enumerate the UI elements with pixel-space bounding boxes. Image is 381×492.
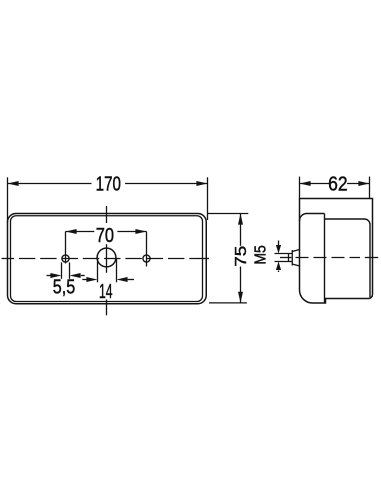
dimension 170 arrowheads	[8, 181, 19, 186]
dimension 5,5 extension lines	[62, 262, 70, 278]
dimension 62 extension line right	[369, 177, 371, 198]
side view lens split vertical line	[324, 214, 326, 304]
center hole (dia 14)	[97, 248, 116, 267]
lamp front view outer outline	[8, 214, 207, 304]
svg-text:62: 62	[328, 173, 348, 195]
dimension 5,5 arrows (pointing inward)	[47, 275, 52, 277]
dimension 14 arrows (pointing inward)	[82, 279, 86, 281]
dimension 170 extension line left	[7, 177, 9, 222]
lamp front view inner outline (lens edge)	[11, 216, 203, 302]
dimension 170 line	[8, 183, 208, 185]
svg-text:M5: M5	[253, 245, 270, 265]
dimension 14 extension lines	[98, 258, 117, 282]
vertical center line of front view	[106, 206, 108, 315]
dimension 70 line with corner drops	[66, 232, 147, 267]
svg-text:75: 75	[233, 246, 250, 267]
svg-text:14: 14	[99, 281, 113, 303]
M5 leader arrows	[278, 241, 280, 246]
svg-text:70: 70	[96, 225, 114, 247]
M5 screw boss (trapezoid)	[292, 250, 299, 267]
horizontal center line through front view	[2, 258, 210, 260]
side view outer outline	[300, 199, 373, 304]
M5 threaded stud	[275, 254, 293, 262]
svg-text:5,5: 5,5	[53, 277, 76, 299]
dimension 62 arrowheads	[300, 181, 311, 186]
dimension 62 line	[300, 183, 370, 185]
dimension 70 arrowheads	[66, 229, 77, 234]
dimension 75 extension lines	[208, 214, 249, 303]
dimension 62 extension line left	[299, 177, 301, 199]
right mounting hole (dia 5.5)	[143, 255, 150, 262]
side view lens/housing parting line	[300, 214, 371, 298]
horizontal center line through side view	[296, 257, 379, 259]
dimension 75 arrowheads	[238, 214, 243, 225]
dimension 170 extension line right	[207, 177, 209, 220]
left mounting hole (dia 5.5)	[62, 255, 69, 262]
svg-text:170: 170	[96, 173, 121, 195]
dimension 75 line	[240, 214, 242, 303]
